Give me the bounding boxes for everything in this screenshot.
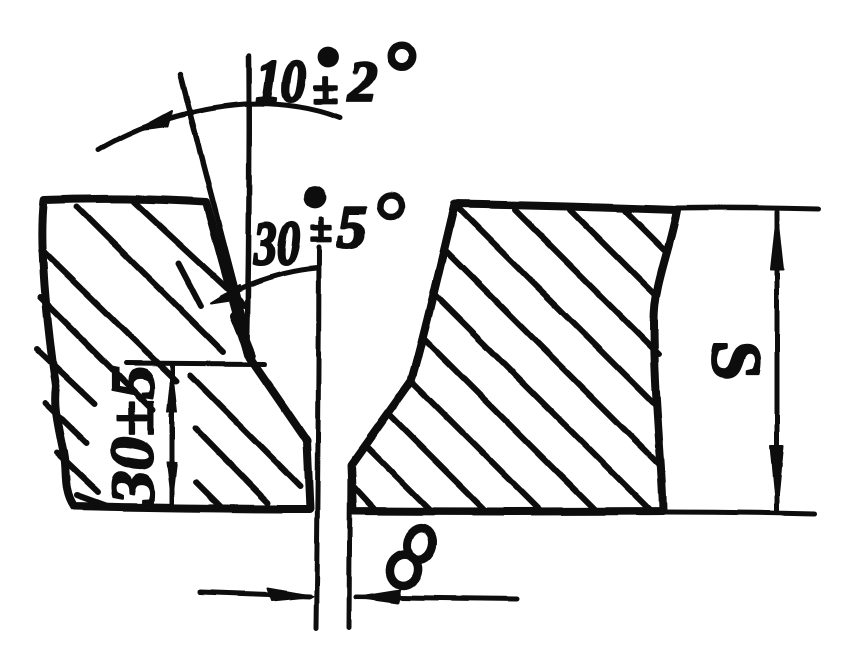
angle leader arc (30 deg) [222, 268, 317, 297]
svg-text:30: 30 [253, 210, 300, 278]
svg-text:S: S [697, 341, 774, 380]
right plate hatching [353, 210, 664, 511]
svg-text:5: 5 [337, 194, 367, 260]
bevel angle line (10 deg) [180, 75, 247, 332]
dimension line 8 (left segment) [200, 592, 310, 596]
svg-text:±: ± [313, 62, 338, 113]
left plate outline [42, 199, 310, 509]
extension line for 30±5 (horizontal) [126, 363, 265, 364]
arrowhead left (points right) [268, 588, 313, 600]
arrowhead up [771, 214, 783, 270]
angle label 10°±2° [256, 45, 413, 114]
svg-text:±: ± [310, 205, 332, 250]
dimension line 8 (right segment) [356, 597, 517, 599]
svg-text:30±5: 30±5 [99, 365, 167, 506]
value label 8 [387, 525, 436, 588]
arrowhead down [771, 446, 783, 510]
vertical reference line [247, 56, 249, 345]
svg-text:10: 10 [256, 48, 306, 114]
top edge extension line (right plate) [677, 208, 818, 209]
dimension line S [775, 212, 780, 512]
left plate hatching [37, 202, 300, 508]
arc arrowhead [137, 111, 172, 130]
right plate outline [351, 204, 677, 512]
junction blob where bevel, reference and angle lines meet [235, 316, 251, 356]
gap extension line (right) [349, 465, 350, 628]
leader arrowhead [211, 285, 240, 303]
arrowhead down [167, 462, 177, 506]
gap reference line (left) [316, 247, 319, 629]
bottom edge extension line (right plate) [663, 512, 815, 514]
dimension line 30±5 (vertical) [170, 364, 175, 508]
angle label 30°±5° [253, 187, 402, 278]
svg-text:2: 2 [347, 49, 377, 114]
angle dimension arc (10 deg) [98, 104, 340, 150]
arrowhead up [167, 366, 177, 412]
arrowhead right (points left) [356, 590, 400, 603]
